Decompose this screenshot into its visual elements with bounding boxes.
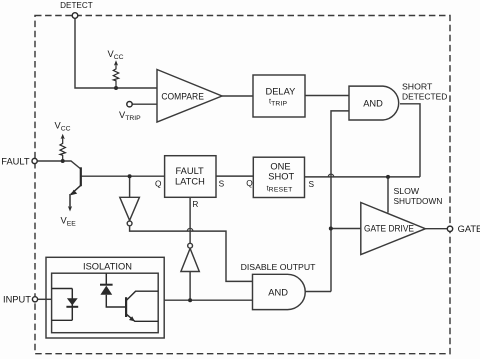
svg-text:GATE DRIVE: GATE DRIVE xyxy=(364,224,414,234)
svg-text:AND: AND xyxy=(363,99,383,109)
svg-text:INPUT: INPUT xyxy=(3,294,31,304)
inverter B (input to latch R) xyxy=(181,243,199,271)
Q2 emitter arrowhead xyxy=(129,316,135,321)
op-amp U1 COMPARE xyxy=(157,70,222,123)
wire gate drive output to GATE xyxy=(425,228,447,230)
hop at crossing of inverter A route and latch R line xyxy=(187,228,193,231)
svg-text:FAULT: FAULT xyxy=(176,166,205,176)
wire gate drive input xyxy=(331,228,361,230)
latch block FAULT LATCH xyxy=(165,156,216,198)
svg-text:AND: AND xyxy=(268,287,288,297)
svg-text:FAULT: FAULT xyxy=(1,157,30,167)
terminal GATE xyxy=(447,226,452,231)
svg-text:DELAY: DELAY xyxy=(266,87,296,97)
Q1 emitter arrowhead xyxy=(71,190,78,195)
svg-text:LATCH: LATCH xyxy=(175,177,205,187)
junction dot on S net to slow shutdown xyxy=(386,175,390,179)
transistor Q1 xyxy=(70,167,81,207)
delay block DELAY tTRIP xyxy=(253,75,305,117)
Vcc arrow for R2 xyxy=(61,134,65,139)
svg-text:SLOW: SLOW xyxy=(394,186,420,196)
junction dot at Vcc resistor / comparator input xyxy=(114,86,118,90)
wire FAULT to transistor xyxy=(37,161,81,169)
wire latch Q / transistor base xyxy=(81,175,165,177)
gate U2 AND (short detect) xyxy=(349,86,399,120)
gate U3 AND (disable output) xyxy=(253,274,306,309)
one-shot block ONE SHOT tRESET xyxy=(253,157,304,197)
junction dot at FAULT pull-up node xyxy=(61,159,65,163)
svg-text:COMPARE: COMPARE xyxy=(161,91,204,101)
wire delay output to AND1 xyxy=(305,95,349,97)
terminal INPUT xyxy=(32,297,37,302)
Q1 base bar xyxy=(80,167,82,186)
diode D2 cathode bar xyxy=(100,284,113,286)
wire AND1 lower input / disable net vertical xyxy=(331,111,349,292)
svg-text:ONE: ONE xyxy=(270,162,290,172)
wire AND2 output xyxy=(305,291,331,293)
svg-text:DISABLE OUTPUT: DISABLE OUTPUT xyxy=(241,262,317,272)
LED D1 triangle xyxy=(67,298,78,305)
svg-text:SHORT: SHORT xyxy=(402,82,433,92)
wire inverter A output to AND2 top input xyxy=(130,226,253,281)
terminal DETECT xyxy=(72,13,78,19)
resistor R1 desat pull-up xyxy=(113,65,118,89)
svg-text:Q: Q xyxy=(155,178,162,188)
Q1 emitter xyxy=(70,185,81,207)
wire latch S to one-shot xyxy=(216,175,253,177)
wire Vtrip to comparator - input xyxy=(132,103,157,105)
hop at crossing of S net and disable vertical xyxy=(328,174,334,177)
wire INPUT to LED xyxy=(38,298,52,300)
VEE arrow xyxy=(68,206,72,211)
wire AND1 output down to one-shot S net xyxy=(400,104,420,177)
wire inverter A input xyxy=(129,176,131,197)
amp GATE DRIVE xyxy=(361,203,426,255)
svg-text:Q: Q xyxy=(246,178,253,188)
svg-text:R: R xyxy=(192,199,198,209)
phototransistor Q2 xyxy=(126,291,158,321)
svg-text:S: S xyxy=(309,179,315,189)
svg-text:S: S xyxy=(219,178,225,188)
diode D2 triangle xyxy=(100,286,112,295)
wire latch R from inverter B xyxy=(189,197,191,243)
LED D1 cathode bar xyxy=(66,306,78,308)
diode D2 sense xyxy=(106,273,126,307)
svg-text:SHOT: SHOT xyxy=(268,171,294,181)
junction dot at isolation output / inverter B xyxy=(188,298,192,302)
junction dot at gate drive input xyxy=(329,227,333,231)
Vcc arrow for R1 xyxy=(114,60,118,65)
wire inverter B input xyxy=(189,272,191,301)
svg-text:DETECTED: DETECTED xyxy=(402,92,447,102)
inverter A (fault latch Q to disable) xyxy=(120,197,140,226)
Q2 emitter xyxy=(126,314,158,321)
terminal VTRIP input xyxy=(127,102,132,107)
wire one-shot output S net xyxy=(305,176,421,178)
Q2 base bar xyxy=(125,297,127,317)
svg-text:SHUTDOWN: SHUTDOWN xyxy=(394,196,443,206)
wire slow shutdown drop xyxy=(387,177,389,213)
isolation inner box xyxy=(52,273,159,333)
terminal FAULT xyxy=(32,158,37,163)
LED D1 loop xyxy=(52,289,73,321)
wire DETECT to comparator + input xyxy=(75,18,157,88)
svg-text:DETECT: DETECT xyxy=(60,1,93,10)
resistor R2 fault pull-up xyxy=(60,138,65,161)
wire isolation output to AND2 bottom input xyxy=(164,299,252,301)
Q2 collector xyxy=(126,291,158,300)
svg-text:GATE: GATE xyxy=(458,224,480,234)
isolation outer box xyxy=(46,257,164,338)
junction dot at latch Q / inverter A xyxy=(128,174,132,178)
wire comparator output to delay xyxy=(222,95,253,97)
svg-text:ISOLATION: ISOLATION xyxy=(83,262,132,272)
